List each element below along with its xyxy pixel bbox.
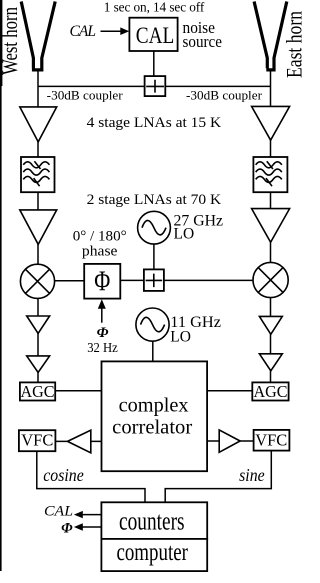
svg-text:4 stage LNAs at 15 K: 4 stage LNAs at 15 K bbox=[87, 115, 222, 131]
svg-text:LO: LO bbox=[174, 225, 195, 242]
svg-text:2 stage LNAs at 70 K: 2 stage LNAs at 70 K bbox=[87, 192, 222, 208]
svg-text:CAL: CAL bbox=[44, 504, 73, 520]
svg-text:Φ: Φ bbox=[97, 325, 109, 341]
svg-text:source: source bbox=[183, 32, 223, 51]
svg-text:LO: LO bbox=[170, 328, 191, 345]
svg-text:Φ: Φ bbox=[94, 266, 110, 298]
svg-text:AGC: AGC bbox=[254, 382, 288, 401]
svg-text:-30dB coupler: -30dB coupler bbox=[186, 89, 263, 103]
svg-text:AGC: AGC bbox=[21, 382, 55, 401]
svg-text:sine: sine bbox=[239, 465, 265, 485]
svg-text:West horn: West horn bbox=[0, 7, 22, 75]
svg-text:0° / 180°: 0° / 180° bbox=[73, 227, 127, 244]
svg-text:correlator: correlator bbox=[112, 417, 192, 439]
svg-text:phase: phase bbox=[82, 243, 118, 259]
svg-text:cosine: cosine bbox=[43, 465, 84, 485]
svg-text:East horn: East horn bbox=[281, 11, 304, 78]
svg-text:computer: computer bbox=[116, 537, 188, 566]
svg-text:Φ: Φ bbox=[61, 521, 73, 537]
svg-text:32 Hz: 32 Hz bbox=[87, 340, 118, 355]
svg-text:complex: complex bbox=[119, 394, 189, 416]
svg-text:counters: counters bbox=[119, 506, 185, 535]
svg-text:CAL: CAL bbox=[136, 23, 175, 48]
svg-text:1 sec on, 14 sec off: 1 sec on, 14 sec off bbox=[104, 0, 205, 14]
svg-text:VFC: VFC bbox=[255, 431, 287, 450]
svg-text:CAL: CAL bbox=[70, 23, 97, 40]
svg-text:VFC: VFC bbox=[21, 431, 53, 450]
svg-text:-30dB coupler: -30dB coupler bbox=[47, 89, 124, 103]
